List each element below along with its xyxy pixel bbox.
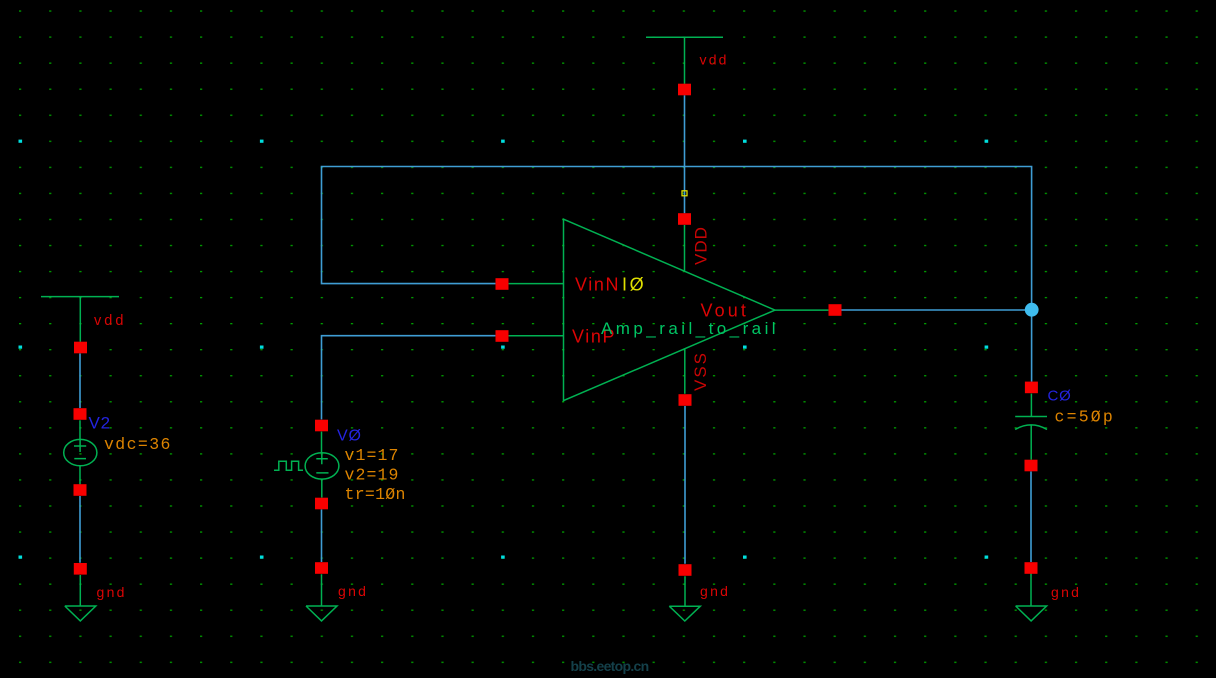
pin square opamp VDD — [678, 213, 691, 225]
pin square gnd center — [679, 564, 692, 576]
junction marker yellow square — [682, 191, 687, 196]
svg-text:vdd: vdd — [94, 313, 126, 329]
wire V2 minus to gnd — [79, 496, 81, 563]
svg-text:VØ: VØ — [337, 428, 362, 445]
wire feedback net Vout to VinN — [322, 167, 1032, 310]
wire C0 to gnd — [1030, 472, 1032, 563]
op-amp U0 triangle Amp_rail_to_rail — [564, 219, 776, 400]
wire V0 minus to gnd — [321, 510, 323, 563]
svg-text:gnd: gnd — [700, 583, 730, 599]
svg-text:gnd: gnd — [1051, 584, 1081, 600]
voltage source V0 pulse — [274, 432, 339, 498]
wire vdd to opamp VDD — [684, 95, 686, 213]
wire output net — [842, 309, 1026, 311]
svg-text:vdd: vdd — [700, 52, 729, 68]
pin square C0 bottom — [1025, 460, 1038, 472]
svg-text:v2=19: v2=19 — [345, 466, 400, 485]
svg-text:V2: V2 — [89, 414, 111, 433]
svg-text:bbs.eetop.cn: bbs.eetop.cn — [571, 658, 649, 674]
svg-text:gnd: gnd — [338, 583, 368, 599]
svg-text:VinN: VinN — [575, 275, 620, 295]
junction solder dot node Vout — [1025, 303, 1039, 317]
pin square V0 plus — [315, 420, 328, 432]
svg-text:CØ: CØ — [1048, 388, 1072, 405]
pin square VSS — [679, 394, 692, 406]
pin square C0 top — [1025, 382, 1038, 394]
svg-text:Vout: Vout — [701, 301, 749, 321]
op-amp pin stubs — [509, 225, 829, 394]
pin square V2 minus — [74, 484, 87, 496]
pin square V0 minus — [315, 498, 328, 510]
power symbol vdd top — [646, 37, 723, 84]
gnd symbol right — [1016, 572, 1047, 621]
pin square gnd right — [1025, 562, 1038, 574]
gnd symbol left — [65, 575, 96, 621]
pin square vdd top — [678, 84, 691, 96]
pin square V2 plus — [74, 408, 87, 420]
svg-text:tr=1Øn: tr=1Øn — [345, 485, 406, 504]
svg-text:c=5Øp: c=5Øp — [1055, 408, 1116, 427]
pin square gnd V0 — [315, 562, 328, 574]
pin square Vout — [829, 304, 842, 316]
wire opamp VSS to gnd — [684, 406, 686, 564]
gnd symbol below opamp — [669, 576, 700, 621]
svg-text:vdc=36: vdc=36 — [104, 435, 172, 454]
voltage source V2 — [64, 420, 97, 484]
svg-text:IØ: IØ — [622, 275, 646, 295]
pin square VinP — [496, 330, 509, 342]
svg-text:v1=17: v1=17 — [345, 446, 400, 465]
svg-text:Amp_rail_to_rail: Amp_rail_to_rail — [601, 319, 779, 338]
pin square VinN — [496, 278, 509, 290]
svg-text:VSS: VSS — [691, 351, 710, 391]
svg-text:VDD: VDD — [692, 226, 711, 265]
gnd symbol V0 — [306, 574, 337, 621]
pin square gnd left — [74, 563, 87, 575]
wire VinP net — [322, 336, 496, 420]
pin square vdd left — [74, 342, 87, 354]
wire junction to C0 — [1031, 316, 1033, 382]
power symbol vdd left — [41, 297, 119, 342]
wire vdd-left to V2 plus — [79, 354, 81, 409]
svg-text:gnd: gnd — [97, 584, 127, 600]
capacitor C0 — [1015, 394, 1047, 460]
